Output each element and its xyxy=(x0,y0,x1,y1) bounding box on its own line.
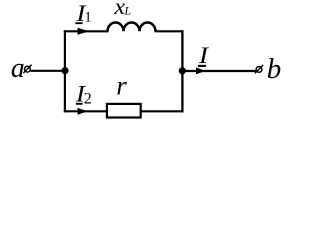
svg-text:L: L xyxy=(123,3,131,17)
svg-text:2: 2 xyxy=(84,91,92,108)
inductor xL xyxy=(108,22,156,31)
svg-text:1: 1 xyxy=(84,10,91,26)
label I1 xyxy=(75,0,91,26)
wire left vertical xyxy=(64,30,66,112)
wire right vertical xyxy=(181,30,183,112)
wire a to left node xyxy=(30,70,65,72)
terminal a circle xyxy=(23,65,31,74)
svg-text:r: r xyxy=(116,71,127,101)
node left junction xyxy=(61,67,68,74)
arrow current I xyxy=(196,67,206,74)
resistor r xyxy=(107,104,141,118)
svg-text:a: a xyxy=(11,52,25,84)
arrow current I2 xyxy=(78,108,88,115)
wire top right segment xyxy=(155,30,184,32)
wire bottom right segment xyxy=(141,110,184,112)
label I2 xyxy=(75,81,92,108)
terminal b circle xyxy=(255,65,263,74)
svg-text:b: b xyxy=(267,53,282,85)
arrow current I1 xyxy=(78,28,90,35)
label I xyxy=(198,43,210,69)
label xL xyxy=(114,0,132,20)
wire bottom left segment xyxy=(64,110,108,112)
node right junction xyxy=(179,67,186,74)
wire node to b xyxy=(182,70,256,72)
wire top left segment xyxy=(64,30,109,32)
